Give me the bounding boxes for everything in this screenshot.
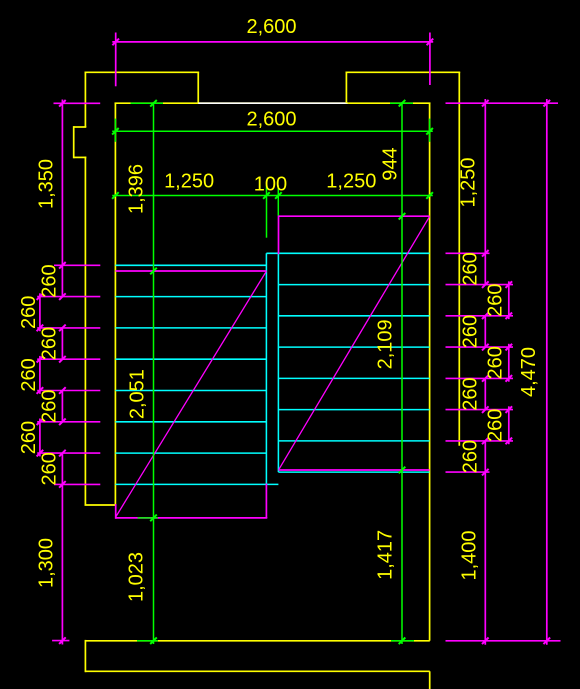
right dim tick at y=347.1 — [482, 344, 489, 351]
right dim extension row 1 — [446, 102, 559, 104]
green chain left ext bottom — [137, 640, 158, 642]
dim row tick d — [426, 192, 433, 199]
right stagger tick at y=284.6 — [506, 281, 513, 288]
right dim tick at y=409.6 — [482, 406, 489, 413]
left flight walk line diagonal — [116, 271, 266, 516]
left flight boundary right — [265, 484, 267, 518]
dim 2600 green line — [112, 130, 433, 132]
right flight tread 1 — [278, 284, 429, 286]
right stagger tick at y=347.1 — [506, 344, 513, 351]
dim 2600 green tick right — [426, 128, 433, 135]
svg-text:1,300: 1,300 — [36, 538, 58, 588]
svg-text:1,396: 1,396 — [125, 164, 147, 214]
dim row tick b — [263, 192, 270, 199]
right dim chain segment 1 — [484, 99, 486, 285]
stringer edge right — [277, 253, 279, 472]
wall outer top-right bump — [346, 72, 461, 445]
green chain right tick 2 — [399, 213, 406, 220]
svg-text:260: 260 — [18, 296, 40, 329]
dim row ext stringer b — [277, 185, 279, 215]
right dim extension row 6 — [446, 377, 514, 379]
left dim tick at y=640.6 — [59, 637, 66, 644]
left dim extension row 2 — [54, 264, 100, 266]
svg-text:100: 100 — [254, 173, 287, 195]
left dim chain segment 2 — [61, 328, 63, 359]
right stagger tick at y=440.9 — [506, 438, 513, 445]
left dim stagger segment 1 — [39, 293, 41, 331]
svg-text:1,250: 1,250 — [326, 170, 376, 192]
dim 2600 top line — [112, 41, 433, 43]
svg-text:260: 260 — [460, 315, 482, 348]
right dim tick at y=440.9 — [482, 438, 489, 445]
left flight tread 1 — [115, 264, 266, 266]
dim row ext stringer — [266, 185, 268, 237]
left stagger tick at y=296.6 — [37, 293, 44, 300]
svg-text:260: 260 — [484, 346, 506, 379]
svg-text:2,109: 2,109 — [375, 319, 397, 369]
right dim tick at y=284.6 — [482, 281, 489, 288]
right dim stagger segment 1 — [508, 281, 510, 319]
dim row tick a — [112, 192, 119, 199]
svg-text:1,250: 1,250 — [164, 170, 214, 192]
left dim extension row 1 — [54, 102, 101, 104]
left flight boundary bottom — [116, 517, 268, 519]
svg-text:260: 260 — [39, 390, 61, 423]
svg-text:1,350: 1,350 — [36, 159, 58, 209]
left dim extension row 9 — [54, 483, 100, 485]
right dim chain segment 2 — [484, 316, 486, 347]
right dim chain segment 4 — [484, 441, 486, 645]
right flight tread 5 — [278, 409, 429, 411]
svg-text:1,417: 1,417 — [374, 530, 396, 580]
dim 2600 green ext right — [429, 119, 431, 142]
right flight walk line diagonal — [279, 216, 430, 469]
left dim extension row 7 — [37, 421, 100, 423]
left dim extension row 3 — [37, 296, 100, 298]
green chain left tick 4 — [150, 637, 157, 644]
right dim extension row 9 — [446, 471, 490, 473]
left flight bottom tread — [115, 483, 278, 485]
wall inner top line — [115, 102, 431, 104]
svg-text:260: 260 — [18, 358, 40, 391]
right stagger tick at y=378.4 — [506, 375, 513, 382]
left dim tick at y=265.3 — [59, 262, 66, 269]
right dim extension row 10 — [446, 640, 561, 642]
left dim chain segment 3 — [61, 391, 63, 422]
dim 2600 top ext right — [429, 33, 431, 86]
left dim tick at y=421.8 — [59, 419, 66, 426]
left flight tread 5 — [115, 390, 266, 392]
right dim tick at y=253.3 — [482, 250, 489, 257]
right flight boundary top — [279, 215, 430, 217]
green chain left tick 2 — [150, 268, 157, 275]
right total tick bottom — [544, 638, 551, 645]
left dim extension row 10 — [52, 640, 69, 642]
left dim tick at y=453.1 — [59, 450, 66, 457]
left dim extension row 6 — [37, 390, 100, 392]
left stagger tick at y=327.9 — [37, 325, 44, 332]
left dim tick at y=484.4 — [59, 481, 66, 488]
floor slab bottom — [85, 640, 429, 689]
left flight boundary left — [115, 504, 117, 519]
svg-text:260: 260 — [484, 284, 506, 317]
stringer edge left — [265, 253, 267, 484]
svg-text:260: 260 — [460, 252, 482, 285]
svg-text:260: 260 — [460, 440, 482, 473]
svg-text:260: 260 — [39, 452, 61, 485]
wall inner right vertical — [429, 103, 431, 641]
svg-text:260: 260 — [484, 409, 506, 442]
right total tick top — [544, 100, 551, 107]
svg-text:2,600: 2,600 — [246, 16, 296, 38]
left dim tick at y=296.6 — [59, 293, 66, 300]
left dim stagger segment 3 — [39, 419, 41, 457]
right flight tread 7 — [278, 471, 429, 473]
left dim chain segment 1 — [61, 100, 63, 297]
dim 2600 green tick left — [112, 128, 119, 135]
dim 2600 top tick right — [427, 39, 434, 46]
left flight tread 2 — [115, 296, 266, 298]
left dim stagger segment 2 — [39, 356, 41, 394]
right stagger tick at y=315.8 — [506, 313, 513, 320]
wall outer left vertical — [84, 157, 86, 506]
right dim tick at y=103.2 — [482, 100, 489, 107]
svg-text:4,470: 4,470 — [518, 347, 540, 397]
right dim extension row 7 — [446, 409, 514, 411]
right dim extension row 2 — [446, 252, 490, 254]
dim row tick c — [275, 192, 282, 199]
left stagger tick at y=390.5 — [37, 387, 44, 394]
right dim chain segment 3 — [484, 378, 486, 409]
svg-text:260: 260 — [39, 264, 61, 297]
left dim tick at y=103.3 — [59, 100, 66, 107]
left flight tread 7 — [115, 452, 266, 454]
left flight boundary top — [115, 270, 266, 272]
svg-text:1,250: 1,250 — [457, 157, 479, 207]
svg-text:1,023: 1,023 — [125, 552, 147, 602]
right flight tread 6 — [278, 440, 429, 442]
left stagger tick at y=421.8 — [37, 419, 44, 426]
green chain right ext bottom — [391, 640, 414, 642]
wall outer top-left bump — [85, 72, 200, 127]
svg-text:260: 260 — [39, 327, 61, 360]
dim row green line — [112, 195, 433, 197]
dim 2600 green ext left — [114, 119, 116, 142]
right flight tread 3 — [278, 346, 429, 348]
wall left notch — [74, 126, 87, 158]
left dim tick at y=327.9 — [59, 325, 66, 332]
green chain left ext mid — [138, 517, 159, 519]
right dim extension row 3 — [446, 284, 514, 286]
right dim stagger segment 2 — [508, 344, 510, 382]
green chain left line — [153, 102, 155, 644]
green chain right line — [401, 102, 403, 644]
right flight tread 4 — [278, 377, 429, 379]
left flight tread 6 — [115, 421, 266, 423]
dim 2600 top ext left — [115, 33, 117, 87]
left flight tread 3 — [115, 327, 266, 329]
right dim extension row 8 — [446, 440, 514, 442]
green chain right tick 4 — [399, 638, 406, 645]
right dim extension row 4 — [446, 315, 514, 317]
right stagger tick at y=409.6 — [506, 406, 513, 413]
green chain left tick 1 — [150, 100, 157, 107]
left flight tread 4 — [115, 358, 266, 360]
svg-text:944: 944 — [379, 147, 401, 180]
svg-text:260: 260 — [460, 377, 482, 410]
right dim extension row 5 — [446, 346, 514, 348]
green chain right tick 3 — [399, 467, 406, 474]
right flight boundary bottom — [279, 469, 430, 471]
wall inner left vertical — [114, 103, 116, 506]
right flight tread 2 — [278, 315, 429, 317]
svg-text:1,400: 1,400 — [459, 530, 481, 580]
right dim tick at y=472.1 — [482, 469, 489, 476]
left dim extension row 4 — [37, 327, 100, 329]
green chain right tick 1 — [399, 100, 406, 107]
right dim stagger segment 3 — [508, 406, 510, 444]
left dim extension row 5 — [37, 358, 100, 360]
wall bottom-left cap — [85, 504, 117, 506]
right dim total chain 4470 — [546, 99, 548, 645]
right dim tick at y=378.4 — [482, 375, 489, 382]
left dim tick at y=390.5 — [59, 387, 66, 394]
right dim tick at y=315.8 — [482, 313, 489, 320]
left dim chain segment 4 — [61, 453, 63, 644]
green chain left ext top — [131, 102, 164, 104]
svg-text:2,600: 2,600 — [246, 108, 296, 130]
right flight top tread — [266, 252, 429, 254]
right dim tick at y=640.8 — [482, 638, 489, 645]
dim 2600 top tick left — [112, 39, 119, 46]
svg-text:260: 260 — [18, 421, 40, 454]
left dim tick at y=359.2 — [59, 356, 66, 363]
left dim extension row 8 — [37, 452, 100, 454]
green chain right ext top — [390, 102, 413, 104]
svg-text:2,051: 2,051 — [127, 369, 149, 419]
right flight boundary left — [278, 215, 280, 254]
green chain left tick 3 — [150, 515, 157, 522]
left stagger tick at y=453.1 — [37, 450, 44, 457]
wall segment white — [198, 102, 347, 104]
left stagger tick at y=359.2 — [37, 356, 44, 363]
